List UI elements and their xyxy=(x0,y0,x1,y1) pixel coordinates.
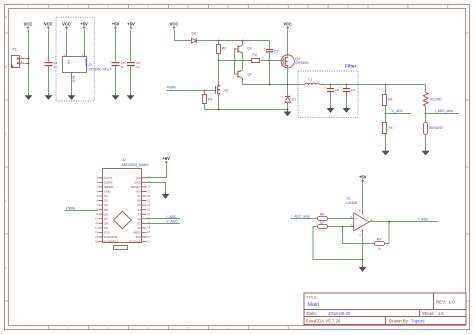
svg-text:1.0: 1.0 xyxy=(449,300,456,305)
power flag VCC (rail 3) xyxy=(62,21,71,30)
junction Q1 source xyxy=(218,109,220,111)
junction R2 top xyxy=(218,40,220,42)
svg-text:A2: A2 xyxy=(137,217,141,221)
svg-text:LM358: LM358 xyxy=(347,201,357,205)
junction output xyxy=(389,221,391,223)
resistor R8 xyxy=(318,213,328,221)
net label PWM (driver) xyxy=(167,86,215,91)
power flag +5V (arduino VIN) xyxy=(162,156,170,165)
svg-text:LM7805L-TA3-T: LM7805L-TA3-T xyxy=(88,67,112,71)
wire U3 GND pin xyxy=(71,78,73,94)
svg-text:U2: U2 xyxy=(122,158,126,162)
junction V_ADC xyxy=(385,113,387,115)
svg-text:V_ADC: V_ADC xyxy=(167,220,179,224)
ground (C2) xyxy=(343,106,351,113)
wire pin2 to feedback xyxy=(343,227,375,244)
svg-text:I_ADC_amp: I_ADC_amp xyxy=(435,109,454,113)
wire VCC to D2 xyxy=(175,31,192,41)
wire gate into Q4 xyxy=(282,60,284,62)
svg-text:R7: R7 xyxy=(320,221,324,225)
svg-text:D11/MOSI: D11/MOSI xyxy=(104,235,117,239)
ground (U3) xyxy=(68,93,76,100)
svg-text:3: 3 xyxy=(107,5,109,9)
svg-text:D3: D3 xyxy=(104,199,108,203)
svg-text:6: 6 xyxy=(227,5,229,9)
svg-text:I_ADC: I_ADC xyxy=(166,215,177,219)
svg-text:2: 2 xyxy=(67,327,69,331)
svg-text:ARDUINO_NANO: ARDUINO_NANO xyxy=(122,163,150,167)
resistor R5 xyxy=(383,114,393,150)
junction C4 xyxy=(330,84,332,86)
resistor RLOAD (zigzag) xyxy=(423,92,442,106)
svg-text:D2: D2 xyxy=(104,194,108,198)
power flag +5V (opamp) xyxy=(359,175,367,184)
svg-text:E: E xyxy=(5,266,7,270)
power flag +5V (rail 4) xyxy=(80,21,88,30)
net label V_ADC (arduino A1) xyxy=(147,220,181,224)
junction mid bases xyxy=(234,60,236,62)
wire Q4 source down xyxy=(287,69,289,85)
wire opamp output xyxy=(373,221,439,223)
ground (rail 2) xyxy=(45,93,53,100)
svg-text:D9: D9 xyxy=(104,226,108,230)
junction P1 pins xyxy=(28,58,30,60)
svg-text:2018-09-20: 2018-09-20 xyxy=(328,311,351,316)
svg-text:+: + xyxy=(340,85,342,89)
svg-text:+5V: +5V xyxy=(136,190,141,194)
svg-text:RESET: RESET xyxy=(104,185,114,189)
capacitor C3 xyxy=(264,41,279,62)
op-amp U1 LM358 xyxy=(347,197,373,237)
svg-text:4: 4 xyxy=(147,327,149,331)
svg-text:6: 6 xyxy=(227,327,229,331)
svg-text:R3: R3 xyxy=(252,53,256,57)
svg-text:P1: P1 xyxy=(13,48,17,52)
net label PWM (arduino D9) xyxy=(65,207,99,211)
ground (opamp) xyxy=(359,265,367,272)
wire rail6 xyxy=(130,31,132,93)
net label V_ADC xyxy=(386,109,412,113)
svg-text:VIN: VIN xyxy=(136,176,141,180)
svg-text:GND: GND xyxy=(72,76,76,84)
junction C3 gate crossing xyxy=(269,60,271,62)
junction bottom return / D1 xyxy=(287,109,289,111)
wire to RLOAD corner xyxy=(425,85,427,93)
svg-text:3V3: 3V3 xyxy=(136,235,142,239)
svg-text:+: + xyxy=(264,47,266,51)
svg-text:Q2: Q2 xyxy=(247,73,252,77)
svg-text:IRF540N: IRF540N xyxy=(295,61,309,65)
svg-text:R8: R8 xyxy=(320,213,324,217)
wire R8 to pin3 xyxy=(328,218,351,220)
svg-text:9: 9 xyxy=(347,5,349,9)
svg-text:C2: C2 xyxy=(351,88,355,92)
junction mid emitters xyxy=(242,60,244,62)
svg-text:VCC: VCC xyxy=(283,21,292,26)
ground (rail 5) xyxy=(112,93,120,100)
wire C3 bottom to source xyxy=(269,61,271,85)
power flag VCC (rail 1) xyxy=(24,21,33,30)
svg-text:D10: D10 xyxy=(104,231,110,235)
wire RLOAD to junction xyxy=(425,107,427,115)
svg-text:2: 2 xyxy=(67,5,69,9)
svg-text:D1: D1 xyxy=(292,98,296,102)
power flag VCC (rail 2) xyxy=(44,21,53,30)
wire R9 to output xyxy=(385,222,390,244)
svg-text:1/1: 1/1 xyxy=(438,311,445,316)
svg-text:R4: R4 xyxy=(388,97,392,101)
wire Q3 collector xyxy=(242,41,244,46)
power flag +5V (rail 5) xyxy=(112,21,120,30)
wire rail4 to U3 VOUT xyxy=(84,31,86,53)
capacitor C4 xyxy=(325,85,340,107)
wire bootstrap rail top xyxy=(198,40,270,42)
inductor L1 xyxy=(305,78,319,85)
svg-text:L1: L1 xyxy=(309,78,313,82)
ground (C4) xyxy=(327,106,335,113)
wire Q3 emitter to mid xyxy=(242,54,244,62)
power flag +5V (rail 6) xyxy=(127,21,135,30)
svg-text:8: 8 xyxy=(307,5,309,9)
resistor R4 xyxy=(383,85,393,114)
svg-text:A5: A5 xyxy=(137,203,141,207)
wire Q1 drain up xyxy=(218,61,220,86)
wire rail3 to U3 VIN xyxy=(66,31,68,53)
wire +5V to opamp V+ xyxy=(362,184,364,212)
resistor R7 xyxy=(318,221,328,229)
wire rail1 vertical xyxy=(28,31,30,93)
svg-text:Date:: Date: xyxy=(307,311,318,316)
svg-text:+5V: +5V xyxy=(80,21,88,26)
svg-text:A4: A4 xyxy=(137,208,141,212)
svg-text:I_ADC_amp: I_ADC_amp xyxy=(291,215,310,219)
svg-text:REV:: REV: xyxy=(436,300,446,305)
svg-text:1k: 1k xyxy=(378,247,382,251)
diode D1 (freewheel) xyxy=(285,85,296,110)
regulator U3 LM7805 xyxy=(63,53,112,84)
svg-text:1: 1 xyxy=(27,5,29,9)
svg-text:1: 1 xyxy=(27,327,29,331)
svg-text:R1: R1 xyxy=(208,97,212,101)
resistor R2 xyxy=(217,41,227,61)
svg-text:D7: D7 xyxy=(104,217,108,221)
ground (R5) xyxy=(382,149,390,156)
svg-text:5: 5 xyxy=(187,5,189,9)
svg-text:Q3: Q3 xyxy=(247,47,252,51)
wire opamp V- to ground xyxy=(362,233,364,265)
svg-text:AREF: AREF xyxy=(133,231,141,235)
wire Q2 collector down xyxy=(242,79,244,86)
svg-text:D6: D6 xyxy=(104,212,108,216)
wire P1 pin1 to rail xyxy=(25,58,30,60)
capacitor C1 xyxy=(42,60,58,69)
svg-text:A1: A1 xyxy=(137,221,141,225)
svg-text:A6: A6 xyxy=(137,199,141,203)
svg-text:D12/MISO: D12/MISO xyxy=(104,240,118,244)
resistor R1 xyxy=(203,91,213,110)
dashed box Filter xyxy=(298,71,358,117)
svg-text:+5V: +5V xyxy=(162,156,170,161)
capacitor C5 xyxy=(109,60,125,69)
junction Q3 collector xyxy=(242,40,244,42)
svg-text:I_ADC: I_ADC xyxy=(418,217,429,221)
svg-text:R5: R5 xyxy=(388,126,392,130)
svg-text:VCC: VCC xyxy=(24,21,33,26)
svg-text:RESET: RESET xyxy=(131,185,141,189)
svg-text:1u: 1u xyxy=(121,65,125,69)
ground (rail 1) xyxy=(25,93,33,100)
resistor R3 xyxy=(252,53,261,63)
junction R4 top xyxy=(385,84,387,86)
power flag VCC (bootstrap rail) xyxy=(170,21,179,30)
svg-text:A7: A7 xyxy=(137,194,141,198)
net label I_ADC (arduino A2) xyxy=(147,215,181,219)
ground (rail 6) xyxy=(127,93,135,100)
svg-text:7: 7 xyxy=(267,5,269,9)
ground (driver) xyxy=(284,109,292,116)
wire driver mid rail xyxy=(219,60,252,62)
wire GND pin xyxy=(147,183,166,192)
junction feedback ground node xyxy=(362,259,364,261)
transistor Q4 IRF540N xyxy=(281,55,309,68)
svg-text:+5V: +5V xyxy=(359,175,367,180)
wire Q1 gate xyxy=(214,90,217,92)
svg-text:B: B xyxy=(5,65,7,69)
wire driver bottom return xyxy=(205,109,288,111)
svg-text:D8: D8 xyxy=(104,221,108,225)
svg-text:R2: R2 xyxy=(222,47,226,51)
ground (arduino) xyxy=(162,192,170,199)
wire Q1 source down xyxy=(218,95,220,111)
wire bases vertical xyxy=(234,49,236,75)
diode D2 xyxy=(191,32,196,43)
junction C2 xyxy=(346,84,348,86)
svg-text:+: + xyxy=(125,60,127,64)
wire rail2 xyxy=(48,31,50,93)
svg-text:Sheet:: Sheet: xyxy=(422,311,435,316)
transistor Q2 xyxy=(235,70,252,79)
junction Q4 source xyxy=(287,84,289,86)
power flag VCC (Q4 drain) xyxy=(283,21,292,30)
junction C3-source xyxy=(269,84,271,86)
transistor Q3 xyxy=(235,45,252,53)
svg-text:VIN: VIN xyxy=(67,59,71,64)
svg-text:+5V: +5V xyxy=(112,21,120,26)
svg-text:VCC: VCC xyxy=(62,21,71,26)
svg-text:D5: D5 xyxy=(104,208,108,212)
svg-text:7upers: 7upers xyxy=(411,318,425,323)
resistor R9 xyxy=(375,238,385,251)
junction R1 top xyxy=(204,90,206,92)
wire +5V to VIN xyxy=(147,165,167,178)
svg-text:VCC: VCC xyxy=(44,21,53,26)
svg-text:+: + xyxy=(109,60,111,64)
wire rail5 xyxy=(115,31,117,93)
wire VCC to Q4 drain xyxy=(287,31,289,55)
svg-text:RSHUNT: RSHUNT xyxy=(429,126,443,130)
svg-text:1u: 1u xyxy=(136,65,140,69)
svg-text:C4: C4 xyxy=(335,88,339,92)
junction mid R2 xyxy=(218,60,220,62)
svg-text:RLOAD: RLOAD xyxy=(430,98,442,102)
svg-text:D1/TX: D1/TX xyxy=(104,176,112,180)
svg-text:D0/RX: D0/RX xyxy=(104,180,113,184)
svg-text:+: + xyxy=(42,60,44,64)
svg-text:GND: GND xyxy=(104,190,110,194)
mcu U2 ARDUINO_NANO xyxy=(95,158,151,250)
junction pin2 node xyxy=(342,226,344,228)
connector P1 xyxy=(11,48,24,68)
svg-text:EasyEDA V5.7.26: EasyEDA V5.7.26 xyxy=(306,318,341,323)
svg-text:3: 3 xyxy=(107,327,109,331)
wire Q2 emitter to mid xyxy=(242,61,244,70)
svg-text:D13/SCK: D13/SCK xyxy=(129,240,141,244)
wire P1 pin2 to rail xyxy=(25,63,30,65)
net label I_ADC_amp xyxy=(426,109,460,113)
svg-text:PWM: PWM xyxy=(167,86,176,90)
dashed box regulator section xyxy=(56,17,94,101)
wire L1 to output xyxy=(320,84,426,86)
svg-text:D2: D2 xyxy=(192,32,196,36)
svg-text:5: 5 xyxy=(187,327,189,331)
resistor RSHUNT xyxy=(424,114,443,150)
capacitor C2 xyxy=(340,85,355,107)
svg-text:R9: R9 xyxy=(377,238,381,242)
svg-text:Q1: Q1 xyxy=(225,88,230,92)
svg-text:Main: Main xyxy=(308,302,320,308)
wire gate xyxy=(261,60,282,62)
junction I_ADC_amp xyxy=(425,113,427,115)
svg-text:VCC: VCC xyxy=(170,21,179,26)
wire source node horizontal xyxy=(243,84,305,86)
svg-text:+: + xyxy=(355,217,357,221)
svg-text:+: + xyxy=(325,85,327,89)
svg-text:Drawn By:: Drawn By: xyxy=(389,318,409,323)
svg-text:D4: D4 xyxy=(104,203,108,207)
wire R7 left leg down xyxy=(313,227,363,260)
transistor Q1 (small MOSFET) xyxy=(216,85,230,95)
svg-text:Filter: Filter xyxy=(345,64,356,69)
svg-text:+5V: +5V xyxy=(127,21,135,26)
net label I_ADC_amp (opamp input) xyxy=(291,215,318,219)
svg-text:V_ADC: V_ADC xyxy=(392,109,404,113)
svg-text:A3: A3 xyxy=(137,212,141,216)
capacitor C6 xyxy=(125,60,141,69)
svg-text:C3: C3 xyxy=(274,49,278,53)
ground (RSHUNT) xyxy=(422,149,430,156)
svg-text:GND: GND xyxy=(134,180,140,184)
svg-text:4: 4 xyxy=(147,5,149,9)
wire R7 to pin2 xyxy=(328,226,351,228)
svg-text:1u: 1u xyxy=(53,65,57,69)
svg-text:TITLE:: TITLE: xyxy=(307,296,318,300)
svg-text:A0: A0 xyxy=(137,226,141,230)
